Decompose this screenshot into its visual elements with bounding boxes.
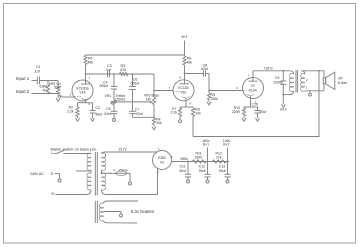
svg-text:B+1: B+1 — [182, 35, 188, 39]
svg-text:.005uf: .005uf — [99, 84, 108, 88]
svg-text:.04uf: .04uf — [103, 112, 111, 116]
svg-text:EL84: EL84 — [249, 88, 257, 92]
svg-text:47k: 47k — [120, 68, 126, 72]
svg-text:220R: 220R — [232, 110, 241, 114]
svg-text:C1: C1 — [36, 65, 41, 69]
svg-text:2.2k: 2.2k — [171, 111, 178, 115]
svg-text:1M: 1M — [146, 97, 151, 101]
svg-text:C7: C7 — [135, 107, 139, 111]
svg-text:C5: C5 — [106, 107, 110, 111]
svg-text:.1uf: .1uf — [105, 68, 112, 72]
svg-text:46k: 46k — [187, 61, 193, 65]
svg-text:B+1: B+1 — [203, 143, 209, 147]
svg-text:.1uf: .1uf — [34, 70, 41, 74]
svg-text:C12: C12 — [199, 164, 205, 168]
svg-text:3300: 3300 — [195, 155, 203, 159]
svg-text:Input 2: Input 2 — [16, 89, 30, 94]
svg-text:Input 1: Input 1 — [16, 76, 30, 81]
svg-text:V3: V3 — [160, 160, 164, 164]
svg-text:C11: C11 — [180, 164, 186, 168]
svg-text:50uf: 50uf — [199, 169, 206, 173]
svg-text:B+2: B+2 — [280, 108, 286, 112]
svg-text:(250k): (250k) — [115, 97, 125, 101]
svg-text:50uf: 50uf — [260, 110, 267, 114]
svg-text:2.2k: 2.2k — [67, 109, 74, 113]
svg-text:10k: 10k — [156, 121, 162, 125]
svg-text:VR1: VR1 — [105, 94, 112, 98]
svg-text:1000p: 1000p — [274, 80, 284, 84]
svg-text:V1A: V1A — [79, 91, 86, 95]
svg-text:50uf: 50uf — [96, 112, 103, 116]
svg-text:.02uf: .02uf — [135, 112, 143, 116]
svg-text:50uf: 50uf — [179, 169, 186, 173]
svg-text:6.3v heaters: 6.3v heaters — [131, 209, 154, 214]
svg-text:C13: C13 — [219, 164, 225, 168]
svg-text:+167v: +167v — [264, 66, 274, 70]
svg-text:27k: 27k — [216, 155, 222, 159]
svg-text:V2: V2 — [251, 84, 255, 88]
svg-text:46k: 46k — [88, 61, 94, 65]
svg-text:C10: C10 — [252, 102, 258, 106]
svg-text:50uf: 50uf — [219, 169, 226, 173]
svg-text:217v: 217v — [119, 147, 127, 151]
svg-text:8 ohm: 8 ohm — [338, 81, 348, 85]
svg-text:.02uf: .02uf — [200, 67, 209, 71]
svg-text:R1: R1 — [43, 88, 47, 92]
svg-text:330k: 330k — [211, 97, 219, 101]
svg-text:B+2: B+2 — [223, 143, 229, 147]
svg-text:240v AC: 240v AC — [30, 172, 44, 176]
svg-text:.005uf: .005uf — [130, 81, 139, 85]
svg-text:250ma: 250ma — [119, 168, 128, 172]
svg-text:C2: C2 — [96, 106, 100, 110]
svg-text:195v: 195v — [180, 157, 188, 161]
svg-text:V1b: V1b — [181, 90, 187, 94]
svg-text:10k: 10k — [195, 111, 201, 115]
svg-text:Mains switch on Bass pot.: Mains switch on Bass pot. — [51, 147, 97, 152]
